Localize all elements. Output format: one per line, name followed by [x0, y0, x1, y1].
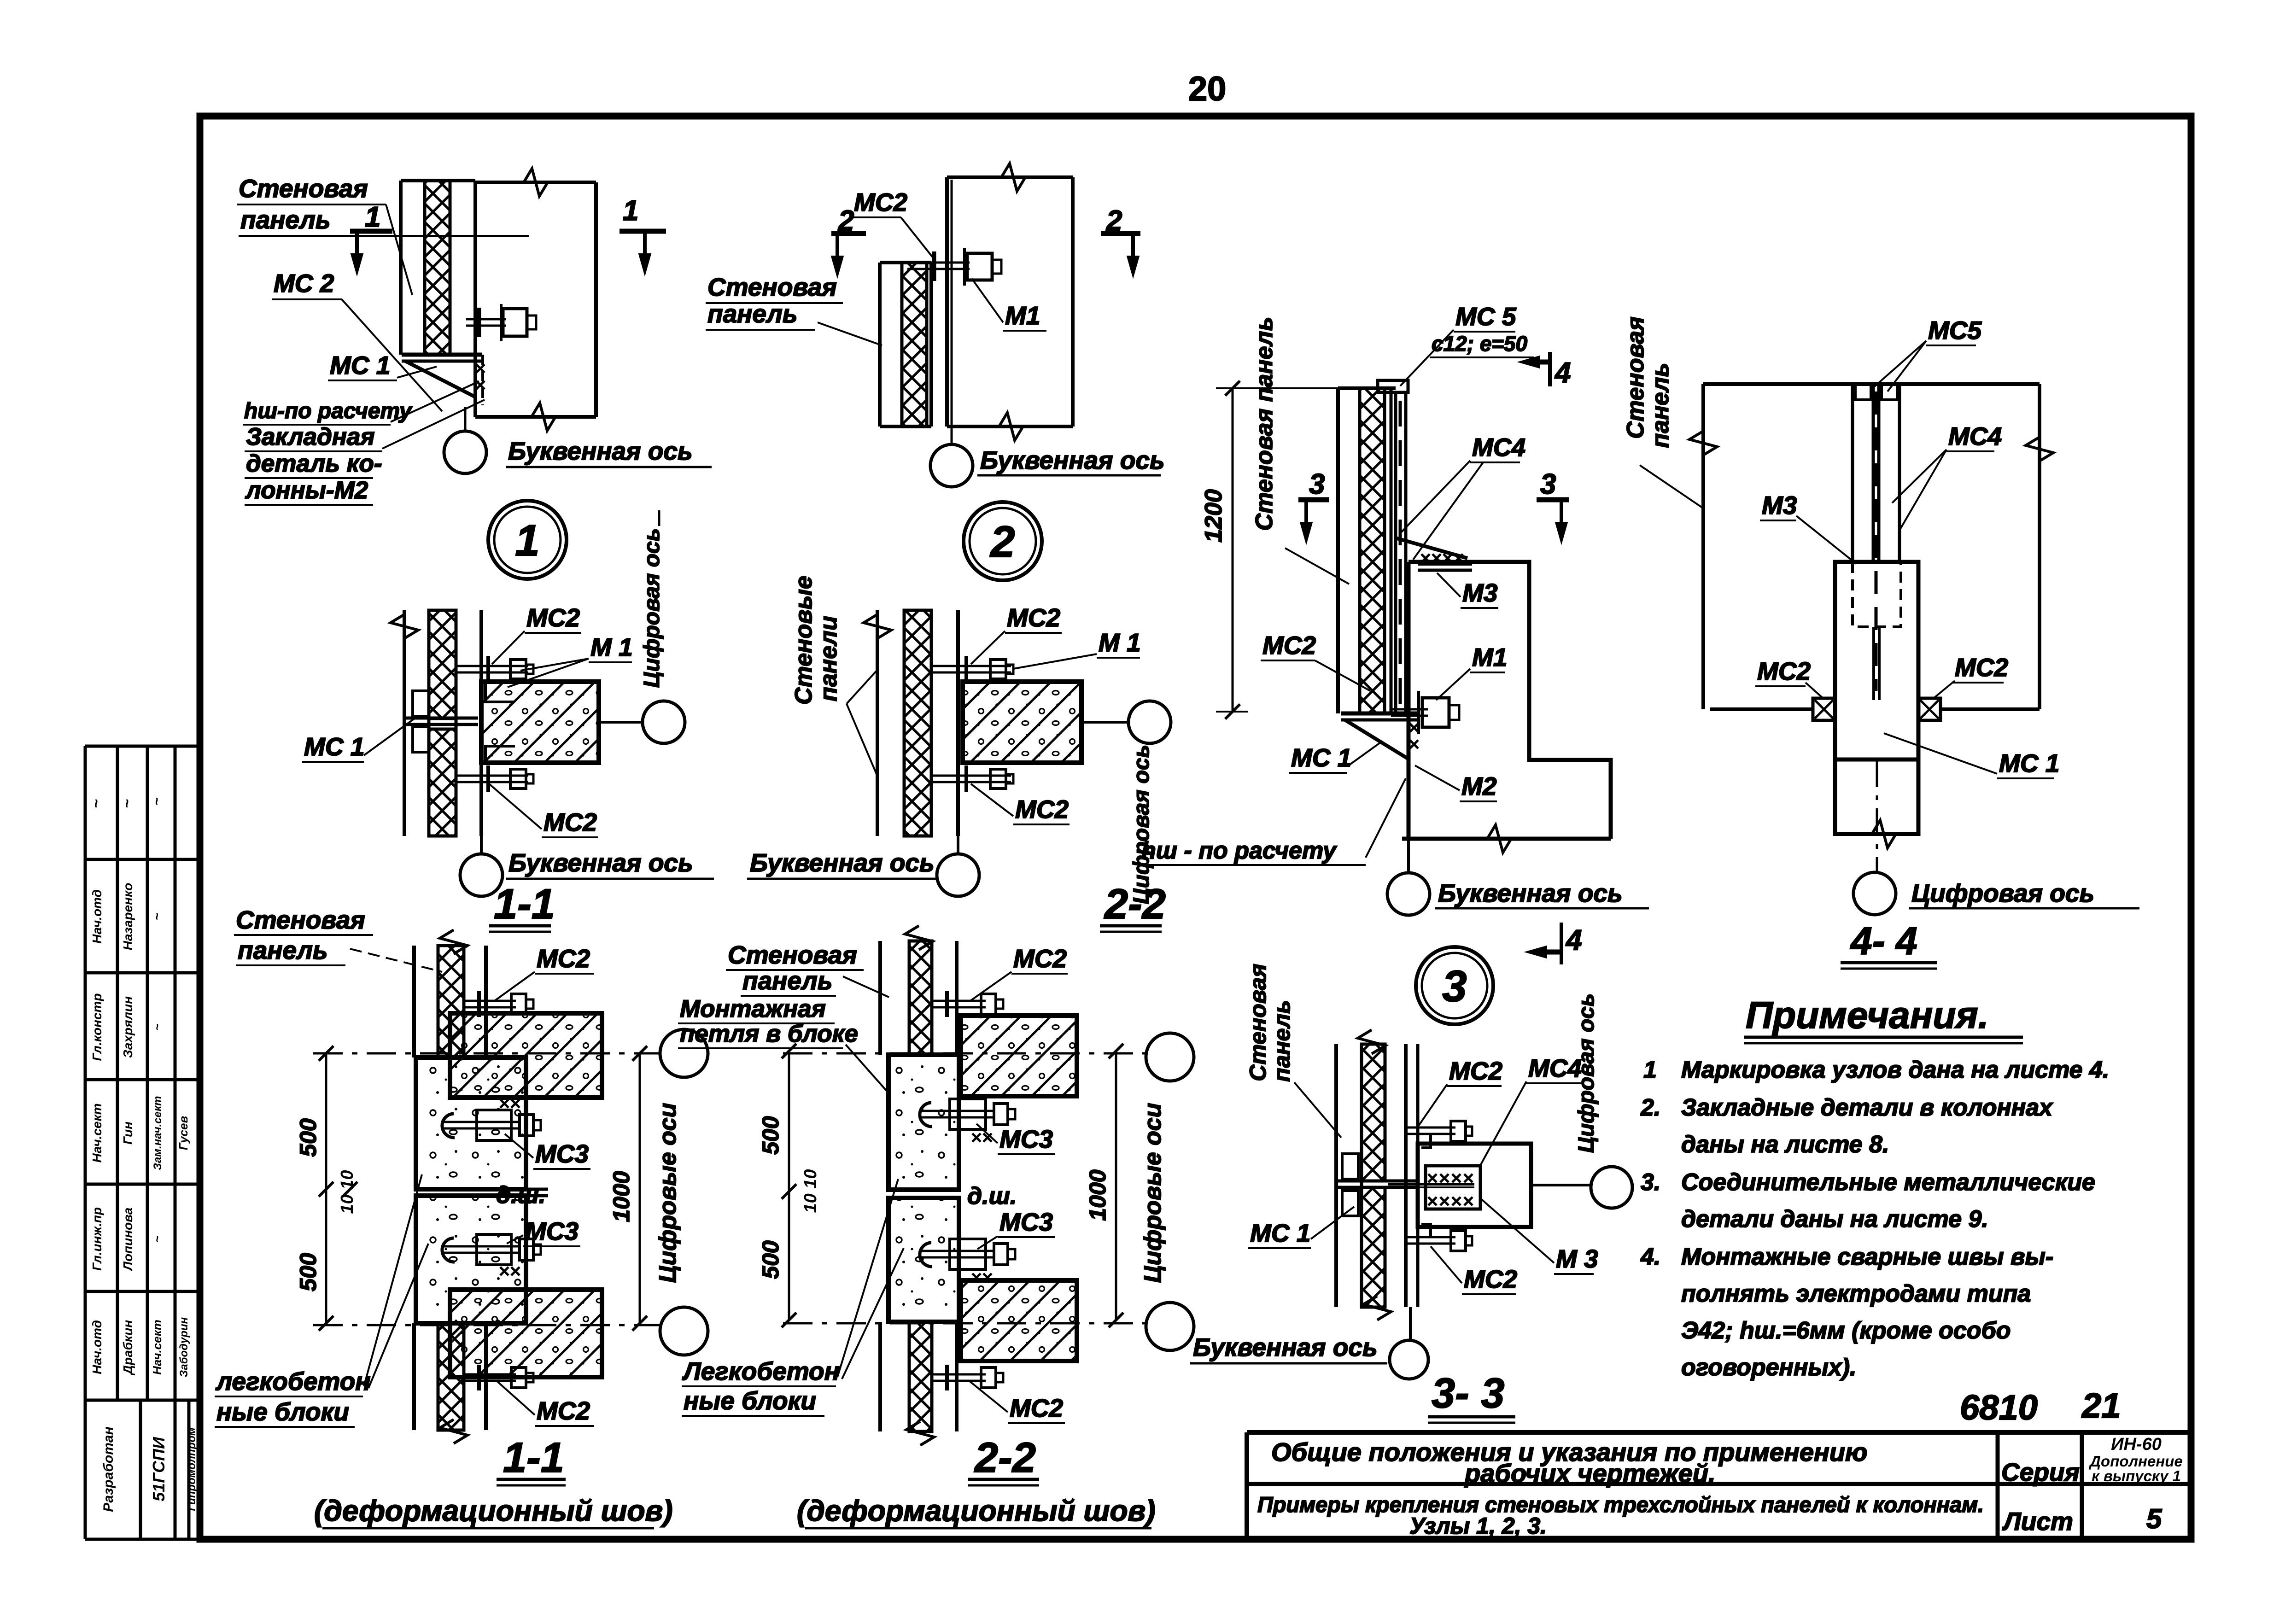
title block — [1247, 1430, 2191, 1435]
svg-text:Гл.констр: Гл.констр — [90, 993, 104, 1061]
sec44 MC2 plate right — [1918, 698, 1940, 720]
sec44 MC2 plate left — [1813, 698, 1835, 720]
svg-text:МС4: МС4 — [1528, 1054, 1582, 1082]
sec33 anchor bolt — [1388, 1183, 1474, 1186]
sec33 column rect — [1418, 1144, 1531, 1227]
svg-text:51ГСПИ: 51ГСПИ — [149, 1437, 168, 1501]
svg-text:МС2: МС2 — [1013, 944, 1067, 973]
svg-text:Гусев: Гусев — [176, 1116, 190, 1151]
node1 weld seam — [476, 364, 485, 373]
sec11b deformation joint — [416, 1188, 548, 1191]
sec22m concrete column block — [963, 682, 1081, 763]
svg-text:М 1: М 1 — [590, 633, 633, 661]
svg-text:МС2: МС2 — [1010, 1394, 1064, 1422]
sec22b wall panel top segment — [878, 941, 882, 1055]
svg-text:1000: 1000 — [1085, 1169, 1110, 1221]
svg-text:4: 4 — [1554, 357, 1571, 389]
sec22b axis line bottom — [783, 1322, 1146, 1325]
svg-text:Назаренко: Назаренко — [121, 883, 135, 951]
svg-text:Легкобетон: Легкобетон — [682, 1357, 840, 1385]
svg-text:МС5: МС5 — [1928, 316, 1982, 345]
svg-text:полнять электродами типа: полнять электродами типа — [1681, 1280, 2031, 1307]
svg-text:21: 21 — [2081, 1386, 2121, 1425]
sec22m letter axis circle — [957, 836, 959, 853]
sec22m top bolt — [931, 665, 1011, 667]
node3 MC5 channel — [1394, 391, 1397, 713]
sec11b wall panel bottom segment — [412, 1323, 416, 1430]
node1 bolt M1 — [466, 318, 506, 321]
svg-text:Лист: Лист — [2002, 1507, 2073, 1536]
svg-text:Стеновая: Стеновая — [239, 174, 368, 203]
svg-text:500: 500 — [758, 1240, 783, 1279]
sec11b axis circle bottom — [660, 1307, 708, 1355]
sec22b concrete block bottom right — [961, 1280, 1077, 1361]
sec11b axis circle top — [660, 1029, 708, 1077]
svg-text:Лопинова: Лопинова — [121, 1208, 135, 1272]
sec33 number axis — [1531, 1184, 1590, 1186]
sec22b deformation joint — [888, 1188, 959, 1192]
node1 M2 embedded plate — [481, 355, 484, 405]
svg-text:М 1: М 1 — [1099, 628, 1141, 657]
svg-text:3: 3 — [1309, 468, 1325, 500]
svg-text:Цифровая ось: Цифровая ось — [1911, 879, 2094, 907]
svg-text:Закладная: Закладная — [246, 423, 375, 450]
node3 section mark 3 right — [1537, 497, 1569, 502]
node3 wall panel — [1336, 388, 1340, 713]
svg-text:5: 5 — [2146, 1503, 2162, 1534]
svg-text:1: 1 — [365, 201, 380, 233]
svg-text:легкобетон: легкобетон — [215, 1367, 371, 1396]
node2 bolt M1 — [907, 262, 970, 264]
sec11m top bolt — [456, 665, 528, 667]
sec44 number axis — [1876, 759, 1878, 872]
svg-text:Примеры крепления стеновых тре: Примеры крепления стеновых трехслойных п… — [1257, 1492, 1984, 1517]
svg-text:Драбкин: Драбкин — [121, 1320, 135, 1376]
svg-text:Гл.инж.пр: Гл.инж.пр — [90, 1207, 104, 1271]
svg-text:Стеновая: Стеновая — [728, 941, 857, 969]
sec44 panel top line — [1703, 382, 2040, 386]
stamp column grid — [84, 746, 87, 1400]
svg-text:hш-по расчету: hш-по расчету — [244, 399, 413, 423]
svg-text:6810: 6810 — [1960, 1388, 2038, 1427]
sec33 panel joint — [1336, 1180, 1418, 1183]
svg-text:Зам.нач.сект: Зам.нач.сект — [152, 1096, 164, 1170]
svg-text:Цифровые оси: Цифровые оси — [655, 1103, 681, 1283]
svg-text:Гин: Гин — [121, 1122, 135, 1145]
svg-text:Буквенная ось: Буквенная ось — [508, 437, 693, 465]
svg-text:3: 3 — [1442, 962, 1467, 1011]
sec11b dim 500 upper — [325, 1053, 327, 1323]
sec22b MC3 upper with loop — [920, 1110, 995, 1112]
node1 section mark 1 right — [620, 229, 666, 234]
svg-text:МС4: МС4 — [1472, 433, 1525, 461]
sec33 MC1 tabs — [1342, 1154, 1358, 1179]
sec11b concrete block top right — [450, 1013, 602, 1098]
svg-text:4: 4 — [1565, 924, 1582, 956]
svg-text:1-1: 1-1 — [503, 1434, 564, 1481]
node3 MC1 bracket — [1341, 712, 1419, 716]
sheet border — [200, 116, 2191, 1539]
node2 wall panel — [878, 263, 882, 426]
sec22m number axis circle — [1081, 721, 1128, 724]
svg-text:МС 1: МС 1 — [304, 732, 364, 761]
sec22m wall panel — [876, 610, 879, 836]
svg-text:2: 2 — [838, 205, 854, 237]
svg-text:МС2: МС2 — [1262, 631, 1316, 660]
node2 circle mark 2 — [964, 502, 1042, 580]
svg-text:4- 4: 4- 4 — [1850, 919, 1917, 963]
node2 section mark 2 left — [831, 231, 866, 236]
svg-text:Стеновая панель: Стеновая панель — [1251, 317, 1278, 531]
svg-text:панель: панель — [707, 299, 798, 328]
svg-text:~: ~ — [118, 799, 136, 808]
sec44 column lower part — [1833, 759, 1837, 836]
node1 column outline — [475, 181, 596, 184]
sec33 MC2 bolt top — [1406, 1127, 1455, 1129]
sec22b MC2 bolt bottom — [932, 1373, 986, 1376]
svg-text:Буквенная ось: Буквенная ось — [1438, 879, 1623, 907]
sec33 MC2 bolt bottom — [1406, 1236, 1455, 1238]
svg-text:ИН-60: ИН-60 — [2111, 1435, 2162, 1454]
svg-text:Нач.сект: Нач.сект — [150, 1320, 164, 1375]
svg-text:МС2: МС2 — [854, 188, 908, 216]
svg-text:3.: 3. — [1641, 1169, 1660, 1196]
svg-text:ные блоки: ные блоки — [684, 1386, 816, 1415]
sec22b dim 1000 — [1115, 1051, 1117, 1320]
svg-text:500: 500 — [758, 1116, 783, 1155]
svg-text:МС 2: МС 2 — [274, 269, 334, 298]
svg-text:Цифровые оси: Цифровые оси — [1140, 1103, 1166, 1283]
svg-text:Закладные детали в колоннах: Закладные детали в колоннах — [1681, 1094, 2053, 1121]
svg-text:1: 1 — [623, 195, 638, 227]
sec11m MC1 tab — [413, 691, 429, 716]
svg-text:д.ш.: д.ш. — [967, 1183, 1017, 1209]
svg-text:панели: панели — [815, 616, 842, 701]
sec44 panel side lines — [1701, 384, 1705, 709]
node1 wall panel — [399, 181, 403, 355]
sec11b axis line bottom — [313, 1324, 660, 1326]
svg-text:МС 1: МС 1 — [1291, 743, 1351, 772]
node1 MC1 bracket — [402, 353, 482, 357]
svg-text:=50: =50 — [1491, 332, 1527, 356]
svg-text:4.: 4. — [1640, 1244, 1660, 1270]
svg-text:10 10: 10 10 — [801, 1169, 820, 1213]
svg-text:МС3: МС3 — [525, 1217, 579, 1245]
node1 letter axis — [464, 407, 467, 431]
svg-text:Нач.отд: Нач.отд — [90, 1320, 104, 1374]
sec11b concrete block bottom right — [450, 1290, 602, 1377]
svg-text:д.ш.: д.ш. — [496, 1182, 545, 1209]
node3 corbel console — [1396, 538, 1467, 558]
node3 column outline — [1408, 562, 1611, 839]
sec11b axis line top — [313, 1052, 660, 1055]
svg-text:20: 20 — [1188, 70, 1226, 108]
svg-text:Нач.сект: Нач.сект — [90, 1103, 104, 1163]
sec22b dim 500s — [788, 1051, 790, 1320]
sec22b MC3 lower with loop — [920, 1250, 995, 1252]
svg-text:Серия: Серия — [2001, 1458, 2080, 1486]
node3 section mark 4 top — [1532, 360, 1550, 365]
svg-text:МС3: МС3 — [999, 1125, 1053, 1153]
svg-text:Стеновая: Стеновая — [1245, 964, 1271, 1081]
sec11b MC2 bolt top — [464, 1000, 516, 1002]
svg-text:Буквенная ось: Буквенная ось — [750, 848, 935, 877]
sec11m bottom bolt — [456, 775, 528, 777]
svg-text:рабочих чертежей.: рабочих чертежей. — [1464, 1459, 1716, 1488]
sec22b wall panel bottom segment — [878, 1322, 882, 1431]
sec11m letter axis circle — [480, 836, 483, 853]
svg-text:500: 500 — [295, 1253, 321, 1291]
sec44 column — [1835, 562, 1918, 759]
sec11b wall panel top segment — [412, 946, 416, 1057]
svg-text:М 3: М 3 — [1556, 1244, 1598, 1273]
sec33 wall panel — [1334, 1044, 1338, 1307]
svg-text:ные блоки: ные блоки — [216, 1397, 349, 1426]
sec11b speckled block upper — [416, 1057, 526, 1189]
svg-text:Монтажные сварные швы вы-: Монтажные сварные швы вы- — [1681, 1244, 2053, 1270]
svg-text:Цифровая ось: Цифровая ось — [640, 528, 664, 688]
svg-text:Буквенная ось: Буквенная ось — [508, 848, 693, 877]
svg-text:1000: 1000 — [608, 1171, 634, 1222]
svg-text:МС2: МС2 — [1464, 1265, 1518, 1293]
svg-text:оговоренных).: оговоренных). — [1681, 1354, 1856, 1381]
svg-text:2: 2 — [989, 517, 1015, 567]
svg-text:М2: М2 — [1461, 772, 1497, 800]
svg-text:2: 2 — [1106, 205, 1122, 237]
node1 section mark 1 left — [350, 229, 392, 234]
svg-text:Э42; hш.=6мм (кроме особо: Э42; hш.=6мм (кроме особо — [1681, 1317, 2011, 1344]
node3 section mark 3 left — [1298, 497, 1329, 502]
sec11b MC3 upper — [442, 1121, 520, 1123]
sec11b MC3 lower — [442, 1245, 520, 1248]
svg-text:детали даны на листе 9.: детали даны на листе 9. — [1681, 1206, 1988, 1233]
svg-text:2-2: 2-2 — [974, 1434, 1036, 1481]
node2 section mark 2 right — [1101, 231, 1140, 236]
svg-text:Узлы 1, 2, 3.: Узлы 1, 2, 3. — [1409, 1513, 1547, 1539]
svg-text:МС2: МС2 — [1007, 603, 1061, 632]
svg-text:МС2: МС2 — [526, 603, 580, 632]
svg-text:М1: М1 — [1472, 643, 1507, 672]
svg-text:Маркировка узлов дана на листе: Маркировка узлов дана на листе 4. — [1681, 1057, 2109, 1083]
sec44 MC4 plates pair — [1853, 384, 1873, 562]
svg-text:1: 1 — [1643, 1057, 1657, 1083]
svg-text:МС2: МС2 — [1449, 1057, 1503, 1085]
svg-text:2-2: 2-2 — [1104, 881, 1166, 928]
svg-text:панель: панель — [742, 966, 833, 995]
sec33 letter axis — [1409, 1307, 1412, 1339]
sec44 joint lines — [1710, 707, 1813, 711]
node3 circle mark 3 — [1416, 947, 1493, 1024]
sec22b speckled block lower — [888, 1198, 959, 1322]
svg-text:Нач.отд: Нач.отд — [90, 889, 104, 944]
svg-text:МС3: МС3 — [999, 1208, 1053, 1236]
sec11b speckled block lower — [416, 1196, 526, 1323]
sec22b MC2 bolt top — [932, 1000, 986, 1002]
svg-text:даны на листе 8.: даны на листе 8. — [1681, 1131, 1889, 1158]
svg-text:панель: панель — [240, 205, 331, 234]
svg-text:Стеновая: Стеновая — [236, 905, 365, 934]
svg-text:панель: панель — [1647, 363, 1674, 448]
svg-text:М1: М1 — [1005, 301, 1040, 330]
svg-text:Разработан: Разработан — [101, 1426, 116, 1512]
svg-text:Монтажная: Монтажная — [680, 995, 826, 1022]
sec33 MC4 plate — [1426, 1166, 1480, 1209]
svg-text:МС 1: МС 1 — [1250, 1219, 1310, 1247]
svg-text:Стеновая: Стеновая — [707, 273, 837, 301]
svg-text:петля в блоке: петля в блоке — [680, 1020, 858, 1047]
node2 column — [945, 177, 949, 426]
svg-text:Забодурин: Забодурин — [178, 1317, 190, 1377]
svg-text:~: ~ — [149, 797, 164, 806]
svg-text:Стеновые: Стеновые — [790, 576, 817, 705]
svg-text:Примечания.: Примечания. — [1746, 994, 1988, 1036]
svg-text:(деформационный шов): (деформационный шов) — [797, 1494, 1156, 1527]
node3 bolt M1 — [1391, 708, 1428, 711]
node3 dim 1200 — [1232, 388, 1234, 712]
svg-text:3- 3: 3- 3 — [1432, 1370, 1505, 1417]
svg-text:М3: М3 — [1762, 491, 1797, 520]
svg-text:500: 500 — [295, 1118, 321, 1157]
sec11m concrete column block — [481, 682, 599, 763]
svg-text:панель: панель — [1269, 1000, 1295, 1082]
sec22m bottom bolt — [931, 775, 1011, 777]
svg-text:~: ~ — [150, 1235, 164, 1242]
sec22b axis circle bottom — [1146, 1303, 1194, 1350]
svg-text:1: 1 — [515, 516, 539, 565]
svg-text:Цифровая ось: Цифровая ось — [1574, 993, 1599, 1153]
svg-text:~: ~ — [88, 799, 105, 808]
svg-text:~: ~ — [150, 1023, 164, 1030]
sec22b axis line top — [783, 1052, 1146, 1055]
sec11b dim 1000 — [639, 1053, 641, 1323]
svg-text:к выпуску 1: к выпуску 1 — [2092, 1467, 2181, 1484]
svg-text:(деформационный шов): (деформационный шов) — [314, 1494, 673, 1527]
sec22b speckled block upper — [888, 1055, 959, 1190]
svg-text:МС2: МС2 — [1015, 795, 1069, 824]
node3 letter axis — [1407, 839, 1410, 873]
node1 circle mark 1 — [488, 501, 567, 579]
sec22b concrete block top right — [961, 1016, 1077, 1096]
svg-text:Соединительные металлические: Соединительные металлические — [1681, 1169, 2095, 1196]
svg-text:Гипромолпром: Гипромолпром — [186, 1427, 198, 1511]
svg-text:Захрялин: Захрялин — [121, 996, 135, 1058]
svg-text:Буквенная ось: Буквенная ось — [1193, 1333, 1378, 1361]
sec11m panel joint — [404, 717, 478, 720]
svg-text:МС 1: МС 1 — [330, 351, 390, 380]
svg-text:М3: М3 — [1462, 578, 1497, 607]
node2 letter axis — [951, 180, 953, 443]
svg-text:МС 1: МС 1 — [1999, 749, 2059, 777]
svg-text:1-1: 1-1 — [494, 881, 555, 928]
svg-text:3: 3 — [1540, 468, 1556, 500]
svg-text:МС4: МС4 — [1948, 422, 2002, 450]
svg-text:МС3: МС3 — [535, 1139, 589, 1168]
svg-text:2.: 2. — [1640, 1094, 1660, 1121]
svg-text:Стеновая: Стеновая — [1622, 316, 1649, 438]
svg-text:лонны-М2: лонны-М2 — [245, 477, 368, 504]
sec22b axis circle top — [1146, 1033, 1194, 1081]
svg-text:1200: 1200 — [1200, 489, 1227, 543]
sec11m wall panel — [403, 610, 406, 836]
svg-text:МС 5: МС 5 — [1455, 302, 1517, 331]
node3 section mark 4 bottom — [1539, 950, 1561, 955]
svg-text:МС2: МС2 — [1757, 657, 1811, 685]
svg-text:МС2: МС2 — [537, 1396, 590, 1425]
svg-text:hш - по расчету: hш - по расчету — [1141, 837, 1338, 864]
svg-text:МС2: МС2 — [544, 808, 597, 836]
svg-text:панель: панель — [238, 936, 328, 964]
svg-text:Буквенная ось: Буквенная ось — [980, 446, 1165, 474]
svg-text:МС2: МС2 — [537, 944, 590, 973]
sec11m number axis circle — [599, 721, 642, 724]
svg-text:МС2: МС2 — [1955, 653, 2009, 682]
svg-text:деталь ко-: деталь ко- — [246, 450, 382, 477]
sec11b MC2 bolt bottom — [464, 1373, 516, 1376]
svg-text:~: ~ — [150, 913, 164, 920]
